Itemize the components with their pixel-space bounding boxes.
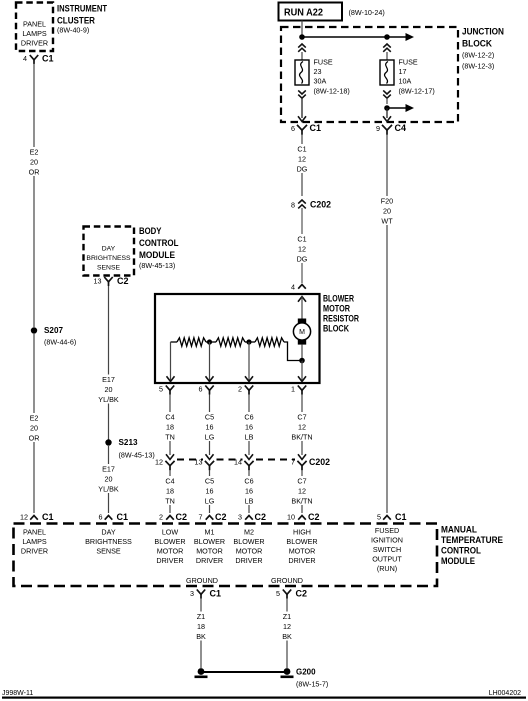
svg-text:12: 12 [298,423,306,432]
svg-text:BODY: BODY [139,226,162,236]
connector C2 pin 5 (MTC ground) [276,589,307,599]
splice S207 [31,325,76,347]
svg-text:7: 7 [199,513,203,522]
thermal limiter / motor element M [293,319,310,345]
svg-text:DRIVER: DRIVER [156,556,183,565]
svg-text:5: 5 [377,513,381,522]
connector C1 pin 3 (MTC ground) [190,589,221,599]
svg-text:YL/BK: YL/BK [98,485,119,494]
node resistor output junction [299,358,305,364]
svg-text:LB: LB [245,497,254,506]
svg-text:6: 6 [99,513,103,522]
svg-text:M: M [299,329,305,336]
svg-text:F20: F20 [381,197,393,206]
svg-text:BLOWER: BLOWER [154,537,185,546]
svg-text:C1: C1 [395,512,407,522]
svg-text:SENSE: SENSE [96,547,121,556]
svg-text:S213: S213 [119,437,138,447]
wire label C1 12 DG [290,234,314,264]
bus wire with arrow (junction block top) [302,33,414,41]
wire R1 to tap M1 [206,341,216,343]
svg-text:2: 2 [159,513,163,522]
connector pin 1 (resistor block output) [291,385,306,395]
svg-text:12: 12 [155,458,163,467]
wire C7 12 BK/TN segment (C202 to MTC) [301,470,303,513]
svg-text:YL/BK: YL/BK [98,395,119,404]
fuse 23 terminal chevrons (top) [298,44,306,60]
wire tap 5 with arrow [167,342,175,382]
connector pin 2 (resistor block output) [238,385,253,395]
fuse 23 terminal chevrons (bottom) [298,90,306,118]
svg-text:MOTOR: MOTOR [196,547,223,556]
MTC input label: M1 blower motor driver [194,528,225,566]
svg-text:C5: C5 [205,477,214,486]
connector C2 pin 2 (MTC module) [159,512,187,522]
svg-text:OUTPUT: OUTPUT [372,555,402,564]
wire label Z1 18 BK [189,612,213,642]
svg-text:PANEL: PANEL [23,528,46,537]
wire C5 16 LG segment (C202 to MTC) [209,470,211,513]
svg-text:(8W-12-18): (8W-12-18) [314,87,350,96]
svg-text:DG: DG [297,255,308,264]
svg-text:C1: C1 [42,54,54,64]
svg-text:13: 13 [195,458,203,467]
svg-text:INSTRUMENT: INSTRUMENT [57,3,107,14]
svg-text:5: 5 [276,589,280,598]
wire R2 to tap M2 [245,341,255,343]
svg-text:DAY: DAY [101,528,115,537]
body control module label [139,226,179,270]
node RUN A22 [279,3,385,21]
wire C5 16 LG segment (pin 6 to C202) [209,395,211,456]
svg-text:LOW: LOW [162,528,179,537]
svg-text:18: 18 [166,423,174,432]
svg-text:23: 23 [314,67,322,76]
svg-text:16: 16 [206,423,214,432]
svg-text:(8W-44-6): (8W-44-6) [44,338,76,347]
svg-text:CONTROL: CONTROL [441,545,481,556]
svg-text:C2: C2 [296,589,308,599]
svg-text:C6: C6 [244,477,253,486]
wire C7 12 BK/TN segment (pin 1 to C202) [301,395,303,456]
fuse F17 10A [380,58,435,96]
footer sheet number [2,690,33,697]
svg-text:E17: E17 [102,375,115,384]
svg-text:C7: C7 [297,413,306,422]
wire label E17 20 YL/BK [95,464,123,494]
svg-text:LG: LG [205,497,215,506]
svg-text:12: 12 [20,513,28,522]
wire label C6 16 LB [237,476,261,506]
svg-text:BLOWER: BLOWER [233,537,264,546]
svg-text:3: 3 [190,589,194,598]
svg-text:C1: C1 [117,512,129,522]
svg-text:1: 1 [291,385,295,394]
connector C202 pin 14 [234,454,254,470]
wire label F20 20 WT [375,196,399,226]
junction block label [462,26,504,70]
svg-text:Z1: Z1 [283,612,291,621]
svg-text:C7: C7 [297,477,306,486]
MTC ground label 2 [271,576,303,585]
svg-text:(RUN): (RUN) [377,564,397,573]
svg-text:DG: DG [297,165,308,174]
svg-text:C1: C1 [210,589,222,599]
svg-text:LH004202: LH004202 [489,690,521,697]
connector C2 pin 13 (body control module) [94,276,129,286]
MTC ground label 1 [186,576,218,585]
svg-text:BLOCK: BLOCK [462,38,492,49]
svg-text:DRIVER: DRIVER [21,547,48,556]
connector C1 pin 4 (instrument cluster) [23,54,54,64]
svg-text:C1: C1 [297,235,306,244]
splice S213 [105,437,154,460]
svg-text:MANUAL: MANUAL [441,524,477,535]
svg-text:WT: WT [381,217,393,226]
svg-text:BRIGHTNESS: BRIGHTNESS [85,537,132,546]
svg-text:Z1: Z1 [197,612,205,621]
resistor chain lead-in [171,341,178,343]
svg-text:LB: LB [245,433,254,442]
wire E17 20 YL/BK segment (S213 to MTC) [108,446,110,513]
junction node below fuse 17 with arrow [384,104,414,118]
svg-text:C1: C1 [310,123,322,133]
resistor R1 (low) [177,338,206,346]
wire tap 6 with arrow [206,342,214,382]
instrument cluster label [57,3,107,34]
wire tap 2 with arrow [245,342,253,382]
svg-text:14: 14 [234,458,242,467]
svg-text:18: 18 [166,487,174,496]
MTC input label: fused ignition switch output (run) [371,526,403,573]
svg-text:G200: G200 [296,667,316,677]
svg-text:(8W-12-2): (8W-12-2) [462,51,494,60]
wire node to pin 1 with arrow [298,361,306,382]
svg-text:8: 8 [291,201,295,210]
svg-text:PANEL: PANEL [23,20,46,29]
svg-text:10A: 10A [399,77,412,86]
connector C202 pin 7 [291,454,307,470]
wire RUN A22 to junction block bus [301,21,303,38]
svg-text:TN: TN [165,497,175,506]
svg-text:12: 12 [283,622,291,631]
svg-text:10: 10 [287,513,295,522]
connector pin 5 (resistor block output) [159,385,174,395]
blower motor resistor block box [155,294,320,383]
svg-text:C2: C2 [255,512,267,522]
wire Z1 12 BK (to G200) [286,599,288,669]
svg-text:DRIVER: DRIVER [288,556,315,565]
svg-text:30A: 30A [314,77,327,86]
wire E2 20 OR segment (S207 to MTC module) [33,334,35,513]
ground G200 [281,667,329,689]
svg-text:C2: C2 [308,512,320,522]
svg-text:BK: BK [282,632,292,641]
svg-text:GROUND: GROUND [186,576,218,585]
MTC input label: M2 blower motor driver [233,528,264,566]
svg-text:MOTOR: MOTOR [157,547,184,556]
connector C1 pin 5 (MTC module, fused ignition switch output) [377,512,407,522]
svg-text:FUSED: FUSED [375,526,399,535]
svg-text:C4: C4 [165,477,174,486]
wire label C7 12 BK/TN [287,476,317,506]
svg-text:M2: M2 [244,528,254,537]
wire label C1 12 DG [290,144,314,174]
svg-text:(8W-12-3): (8W-12-3) [462,62,494,71]
svg-text:MOTOR: MOTOR [289,547,316,556]
svg-text:20: 20 [30,158,38,167]
wire label E2 20 OR [22,413,46,443]
svg-text:OR: OR [29,168,40,177]
svg-text:17: 17 [399,67,407,76]
footer rule [2,697,526,699]
svg-text:16: 16 [206,487,214,496]
svg-text:(8W-10-24): (8W-10-24) [349,8,385,17]
svg-text:E2: E2 [30,414,39,423]
body control module box [84,227,135,276]
svg-text:IGNITION: IGNITION [371,536,403,545]
svg-text:20: 20 [105,475,113,484]
arrow into pin 4 (inside resistor block) [298,297,306,319]
resistor R2 (medium 1) [216,338,245,346]
node tap M1 [207,339,212,344]
svg-text:20: 20 [383,207,391,216]
svg-text:18: 18 [197,622,205,631]
svg-text:E2: E2 [30,148,39,157]
svg-text:DRIVER: DRIVER [235,556,262,565]
svg-text:(8W-45-13): (8W-45-13) [119,451,155,460]
connector C1 pin 12 (MTC module, panel lamps driver) [20,512,54,522]
svg-text:DRIVER: DRIVER [21,39,48,48]
connector C4 pin 9 (junction block) [376,116,406,134]
svg-text:RUN A22: RUN A22 [284,6,323,18]
svg-text:DRIVER: DRIVER [196,556,223,565]
node tap M2 [246,339,251,344]
svg-text:C4: C4 [395,123,407,133]
svg-text:LAMPS: LAMPS [22,29,47,38]
svg-text:4: 4 [23,54,27,63]
svg-text:BK/TN: BK/TN [291,497,312,506]
svg-text:FUSE: FUSE [314,58,333,67]
svg-text:GROUND: GROUND [271,576,303,585]
blower motor resistor block label [323,293,359,334]
svg-text:SENSE: SENSE [97,264,121,271]
svg-text:3: 3 [238,513,242,522]
fuse 17 terminal chevrons (bottom) [383,90,391,104]
svg-text:BRIGHTNESS: BRIGHTNESS [86,255,131,262]
svg-text:BLOCK: BLOCK [323,323,349,334]
connector C2 pin 3 (MTC module) [238,512,266,522]
connector pin 4 (blower motor resistor block) [291,283,306,292]
connector C202 pin 12 [155,454,175,470]
wire label Z1 12 BK [275,612,299,642]
svg-text:4: 4 [291,283,295,292]
svg-text:C1: C1 [42,512,54,522]
svg-text:5: 5 [159,385,163,394]
wire C4 18 TN segment (pin 5 to C202) [169,395,171,456]
MTC input label: day brightness sense [85,528,132,556]
footer drawing number [489,690,521,697]
svg-text:C2: C2 [176,512,188,522]
connector C2 pin 7 (MTC module) [199,512,227,522]
svg-text:S207: S207 [44,325,63,335]
svg-text:BLOWER: BLOWER [194,537,225,546]
wire E17 20 YL/BK segment (BCM to S213) [108,286,110,440]
svg-text:HIGH: HIGH [293,528,311,537]
connector C202 pin 13 [195,454,215,470]
MTC input label: low blower motor driver [154,528,185,566]
svg-text:2: 2 [238,385,242,394]
fuse 17 terminal chevrons (top) [383,44,391,60]
svg-text:6: 6 [199,385,203,394]
manual temperature control module label [441,524,503,567]
wire label C7 12 BK/TN [287,412,317,442]
junction block box [281,27,458,122]
wire label C5 16 LG [198,476,222,506]
svg-text:FUSE: FUSE [399,58,418,67]
svg-text:LAMPS: LAMPS [22,537,47,546]
junction node at fuse 23 [299,34,305,40]
manual temperature control module box [14,524,438,587]
MTC input label: panel lamps driver [21,528,48,556]
svg-text:12: 12 [298,155,306,164]
resistor R3 (medium 2) [255,338,284,346]
ground symbol left [195,668,208,678]
svg-text:20: 20 [105,385,113,394]
svg-text:C1: C1 [297,145,306,154]
wire C6 16 LB segment (C202 to MTC) [248,470,250,513]
svg-text:6: 6 [291,124,295,133]
fuse F23 30A [295,58,350,96]
wire label E2 20 OR [22,147,46,177]
svg-text:(8W-12-17): (8W-12-17) [399,87,435,96]
svg-text:16: 16 [245,487,253,496]
svg-text:9: 9 [376,124,380,133]
svg-text:20: 20 [30,424,38,433]
wire C6 16 LB segment (pin 2 to C202) [248,395,250,456]
svg-text:OR: OR [29,434,40,443]
svg-text:MODULE: MODULE [139,250,175,260]
wire F20 20 WT segment (junction block to MTC) [386,135,388,514]
svg-text:BLOWER: BLOWER [286,537,317,546]
svg-text:C202: C202 [309,457,330,467]
connector pin 6 (resistor block output) [199,385,214,395]
svg-text:J998W-11: J998W-11 [2,690,33,697]
svg-text:(8W-40-9): (8W-40-9) [57,26,89,35]
svg-text:C2: C2 [117,276,129,286]
connector C1 pin 6 (MTC module, day brightness sense) [99,512,129,522]
wire label C5 16 LG [198,412,222,442]
svg-text:LG: LG [205,433,215,442]
svg-text:E17: E17 [102,465,115,474]
svg-text:DAY: DAY [102,245,116,252]
svg-text:C5: C5 [205,413,214,422]
wire Z1 18 BK (to G200) [200,599,202,669]
ground bus wire [201,671,287,673]
connector C1 pin 6 (junction block) [291,116,321,134]
wire label C6 16 LB [237,412,261,442]
svg-text:13: 13 [94,277,102,286]
svg-text:BK: BK [196,632,206,641]
svg-text:BK/TN: BK/TN [291,433,312,442]
MTC input label: high blower motor driver [286,528,317,566]
svg-text:C4: C4 [165,413,174,422]
svg-text:16: 16 [245,423,253,432]
svg-text:TN: TN [165,433,175,442]
svg-text:12: 12 [298,245,306,254]
svg-text:MOTOR: MOTOR [236,547,263,556]
connector C2 pin 10 (MTC module) [287,512,320,522]
wire C4 18 TN segment (C202 to MTC) [169,470,171,513]
svg-text:7: 7 [291,458,295,467]
connector C202 pin 8 [291,200,331,283]
C202 harness dashed line [177,459,295,461]
svg-text:(8W-15-7): (8W-15-7) [296,680,328,689]
junction node at fuse 17 [384,34,390,40]
wire R3 to output node [284,342,302,361]
svg-text:CONTROL: CONTROL [139,238,179,248]
wire C1 12 DG segment (junction block to C202) [301,135,303,197]
svg-text:(8W-45-13): (8W-45-13) [139,261,175,270]
svg-text:C2: C2 [215,512,227,522]
svg-text:MODULE: MODULE [441,556,475,567]
wire E2 20 OR segment (instrument cluster to S207) [33,64,35,328]
svg-text:SWITCH: SWITCH [373,545,401,554]
svg-text:C6: C6 [244,413,253,422]
wire label C4 18 TN [158,476,182,506]
svg-text:M1: M1 [205,528,215,537]
wire label C4 18 TN [158,412,182,442]
wire M to output node [301,345,303,361]
instrument cluster box [16,3,53,52]
wire label E17 20 YL/BK [95,375,123,405]
svg-text:JUNCTION: JUNCTION [462,26,504,37]
svg-text:C202: C202 [310,200,331,210]
svg-text:12: 12 [298,487,306,496]
svg-text:TEMPERATURE: TEMPERATURE [441,535,503,546]
